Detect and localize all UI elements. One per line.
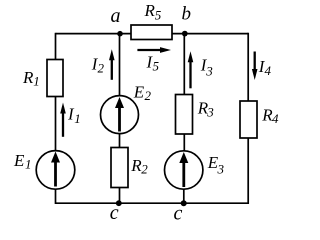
wire top rail right segment (R5 right to top-right corner, through node b) xyxy=(172,33,248,35)
svg-text:1: 1 xyxy=(74,111,81,126)
resistor R5 xyxy=(131,25,172,40)
wire bottom rail xyxy=(56,202,249,204)
wire branch3 middle (R3 to E3) xyxy=(183,134,185,151)
E2 internal arrow xyxy=(118,108,121,132)
svg-text:R: R xyxy=(144,1,156,20)
svg-text:3: 3 xyxy=(206,104,214,119)
resistor R4 xyxy=(240,101,257,138)
svg-text:2: 2 xyxy=(98,60,105,75)
node c1 dot xyxy=(116,200,122,206)
wire branch2 upper (node a to E2 circle) xyxy=(119,34,121,96)
resistor R2 xyxy=(111,148,128,188)
node a dot xyxy=(117,31,123,37)
svg-text:3: 3 xyxy=(205,63,213,78)
E1 internal arrow xyxy=(54,162,57,187)
source E3 xyxy=(165,151,203,189)
svg-text:5: 5 xyxy=(155,8,162,23)
svg-text:4: 4 xyxy=(265,63,272,78)
wire branch3 upper (node b to R3) xyxy=(183,34,185,95)
svg-text:c: c xyxy=(110,202,119,224)
wire branch2 middle (E2 to R2) xyxy=(119,134,121,148)
current arrow I5 xyxy=(137,49,161,51)
source E1 xyxy=(36,151,75,190)
svg-text:2: 2 xyxy=(141,162,148,177)
svg-text:R: R xyxy=(22,68,34,87)
node c2 dot xyxy=(181,200,187,206)
svg-text:5: 5 xyxy=(153,59,160,74)
svg-text:3: 3 xyxy=(217,162,225,177)
svg-text:1: 1 xyxy=(25,157,32,172)
svg-text:4: 4 xyxy=(272,111,279,126)
current arrow I4 (down) xyxy=(254,52,256,71)
wire top rail left segment (corner to R5 left, through node a) xyxy=(56,33,132,35)
wire branch1 upper (top rail to R1) xyxy=(55,33,57,60)
resistor R1 xyxy=(47,60,63,97)
wire branch4 lower (R4 to bottom rail) xyxy=(247,138,249,204)
wire branch1 middle (R1 to E1 circle) xyxy=(55,97,57,151)
wire branch3 lower (E3 to bottom rail) xyxy=(183,190,185,205)
svg-text:2: 2 xyxy=(145,88,152,103)
svg-text:E: E xyxy=(133,83,145,102)
source E2 xyxy=(101,96,139,134)
current arrow I1 xyxy=(62,112,64,137)
current arrow I3 xyxy=(189,61,191,88)
svg-text:b: b xyxy=(182,4,192,25)
current arrow I2 xyxy=(111,59,113,80)
svg-text:1: 1 xyxy=(33,74,40,89)
E3 internal arrow xyxy=(182,163,185,188)
node b dot xyxy=(182,31,188,37)
svg-text:E: E xyxy=(13,151,25,170)
wire branch1 lower (E1 to bottom rail) xyxy=(55,189,57,204)
svg-text:a: a xyxy=(111,5,121,27)
wire branch4 upper (top-right corner to R4) xyxy=(247,33,249,101)
wire branch2 lower (R2 to bottom rail) xyxy=(119,188,121,205)
resistor R3 xyxy=(176,95,193,135)
svg-text:c: c xyxy=(174,203,183,225)
